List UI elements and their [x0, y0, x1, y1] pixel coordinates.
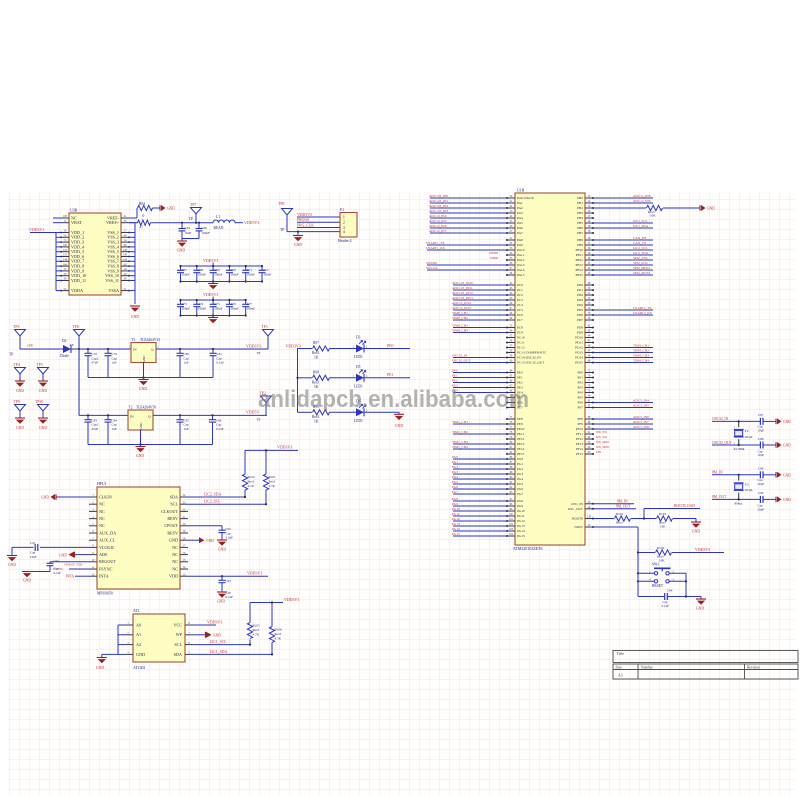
svg-text:GND: GND [783, 473, 791, 477]
svg-text:VBAT: VBAT [71, 220, 82, 225]
wire to U1B PC7 [453, 319, 507, 321]
U1B pin PG3 [507, 473, 515, 475]
svg-text:LED: LED [596, 451, 601, 454]
svg-text:ADC123_IN3: ADC123_IN3 [429, 209, 448, 213]
svg-text:STM32F_VDD: STM32F_VDD [64, 562, 82, 566]
U1B pin PE9 [507, 423, 515, 425]
svg-text:PF14: PF14 [576, 447, 583, 451]
svg-text:PC14-OSC32_IN: PC14-OSC32_IN [517, 356, 541, 360]
svg-text:PE0: PE0 [517, 371, 523, 375]
wire bead to VDD3V3 [235, 222, 243, 224]
wire T2 output rail [153, 414, 267, 416]
wire from U1B PD14 [593, 357, 653, 359]
svg-text:PA12: PA12 [517, 258, 525, 262]
capacitor C70 100nF [228, 266, 230, 270]
svg-text:143: 143 [123, 259, 128, 262]
svg-text:PF15: PF15 [576, 452, 583, 456]
svg-text:PC7: PC7 [517, 318, 523, 322]
svg-text:Res3: Res3 [248, 480, 255, 484]
wire C88 to ground [763, 444, 776, 446]
U1B pin PB8 [585, 239, 593, 241]
wire to U1B PE2 [453, 382, 507, 384]
ground right of C94 [700, 597, 702, 600]
svg-text:8M_OUT: 8M_OUT [616, 504, 631, 508]
svg-text:VDD3V3: VDD3V3 [284, 597, 299, 602]
svg-text:GND: GND [136, 652, 145, 657]
svg-text:SWCLK: SWCLK [426, 266, 438, 270]
ground below C91 wire [7, 555, 17, 557]
svg-text:OSC_OUT: OSC_OUT [568, 507, 583, 511]
HPU1 pin NC / CPOUT [89, 525, 97, 527]
wire to U1B PA9 [427, 244, 507, 246]
wire T1 output rail [156, 348, 268, 350]
svg-text:PRG_CLK: PRG_CLK [297, 223, 314, 227]
wire to U1B PG8 [453, 500, 507, 502]
svg-text:PG5: PG5 [517, 482, 523, 486]
svg-text:8M_OUT: 8M_OUT [712, 495, 727, 499]
svg-text:REGOUT: REGOUT [99, 559, 116, 564]
svg-text:PG2: PG2 [517, 467, 523, 471]
U3B pin VBAT/VREF+ [61, 222, 69, 224]
svg-text:PG5: PG5 [452, 480, 458, 484]
svg-text:0.1uF: 0.1uF [662, 604, 670, 608]
svg-text:FSYNC: FSYNC [99, 566, 113, 571]
wire from U1B PB5 [593, 222, 653, 224]
svg-text:PB3: PB3 [577, 211, 583, 215]
U1B pin PD4 [585, 304, 593, 306]
wire OSC32_IN net [712, 420, 760, 422]
U1B pin PE2 [507, 382, 515, 384]
svg-text:AUX_CL: AUX_CL [99, 538, 116, 543]
ground below C93 [217, 591, 227, 593]
U1B pin PA0-WKUP [507, 197, 515, 199]
svg-text:PE9: PE9 [517, 422, 523, 426]
U1B pin PG6 [507, 488, 515, 490]
wire from U1B PB15 [593, 274, 653, 276]
svg-text:PC2: PC2 [517, 293, 523, 297]
svg-text:TIM1_CH2: TIM1_CH2 [452, 430, 468, 434]
wire top bus cap bank row 2 [181, 299, 246, 301]
capacitor C71 100nF [245, 266, 247, 270]
svg-text:Res3: Res3 [616, 521, 623, 525]
svg-text:PB15: PB15 [575, 273, 583, 277]
svg-text:Res3: Res3 [312, 351, 319, 355]
svg-text:PG7: PG7 [517, 492, 523, 496]
svg-text:VCC: VCC [173, 622, 182, 627]
svg-text:OSC_IN: OSC_IN [571, 502, 583, 506]
svg-text:GND: GND [139, 387, 148, 391]
wire C91 to ground [12, 546, 34, 548]
wire to U1B PA13 [427, 264, 507, 266]
svg-text:PD2: PD2 [577, 293, 583, 297]
U1B pin PE6 [507, 402, 515, 404]
svg-text:10K: 10K [659, 559, 665, 563]
svg-text:SW1: SW1 [652, 563, 659, 567]
svg-text:GND: GND [213, 634, 221, 638]
svg-text:I2C2_SCL: I2C2_SCL [633, 246, 648, 250]
svg-text:PD1: PD1 [577, 288, 583, 292]
svg-text:PF3: PF3 [578, 386, 584, 390]
U1B pin PA7 [507, 232, 515, 234]
wire from U1B PB1 [593, 202, 653, 204]
svg-text:PA2: PA2 [517, 206, 523, 210]
svg-text:I2C1_SCL: I2C1_SCL [633, 219, 648, 223]
LED D5 [356, 374, 364, 382]
wire VREF- to resistor R04 [129, 217, 137, 219]
wire from U1B PB6 [593, 227, 653, 229]
wire pullup tops to VDD3V3 [245, 449, 298, 451]
svg-text:ADC12_IN15: ADC12_IN15 [452, 306, 471, 310]
svg-text:C89: C89 [758, 466, 764, 470]
U1B pin PF8 [585, 418, 593, 420]
U1B pin PA8 [507, 239, 515, 241]
wire header pin2 [297, 221, 340, 223]
ground below T2 [140, 445, 142, 447]
svg-text:SPI2_SCK: SPI2_SCK [633, 261, 648, 265]
svg-text:T2: T2 [129, 406, 133, 410]
U1B pin PE11 [507, 433, 515, 435]
wire to U1B PG11 [453, 515, 507, 517]
svg-text:GND: GND [41, 496, 49, 500]
U1B pin PD6 [585, 314, 593, 316]
svg-text:Title: Title [617, 651, 625, 656]
U1B pin PG11 [507, 515, 515, 517]
svg-text:ADC3_IN8: ADC3_IN8 [633, 425, 649, 429]
U1B pin PE0 [507, 372, 515, 374]
svg-text:121: 121 [63, 249, 68, 252]
svg-text:USART1_TX: USART1_TX [426, 241, 445, 245]
svg-text:131: 131 [63, 254, 68, 257]
capacitor C88 10pF [759, 442, 761, 449]
U1B pin PG4 [507, 478, 515, 480]
wire header pin4 from TP8 [287, 231, 340, 233]
capacitor C86 0.1uF [212, 415, 214, 419]
U1B pin PA5 [507, 222, 515, 224]
wire FSYNC [69, 568, 89, 570]
capacitor C66 100nF [198, 223, 200, 229]
svg-text:USART2_RX: USART2_RX [633, 311, 652, 315]
svg-text:10K: 10K [650, 214, 656, 218]
svg-text:PG10: PG10 [452, 507, 460, 511]
svg-text:PD12: PD12 [575, 346, 583, 350]
svg-text:R101: R101 [269, 475, 276, 479]
svg-text:SCL: SCL [174, 642, 182, 647]
regulator T2 TLE4264V50 [128, 410, 153, 430]
svg-text:SWDIO: SWDIO [426, 261, 438, 265]
svg-text:PB8: PB8 [577, 238, 583, 242]
svg-text:PG1: PG1 [452, 460, 458, 464]
svg-text:AD0: AD0 [99, 552, 107, 557]
svg-text:10K: 10K [660, 525, 666, 529]
wire SW1 right side down [685, 573, 687, 596]
U1B pin PE10 [507, 428, 515, 430]
svg-text:PA10: PA10 [517, 248, 525, 252]
wires to SW1 contacts [638, 572, 654, 574]
svg-text:PB4: PB4 [577, 216, 583, 220]
svg-text:4.7K: 4.7K [248, 484, 255, 488]
svg-text:TP1: TP1 [262, 325, 268, 329]
svg-text:C68: C68 [198, 268, 204, 272]
svg-text:PF13: PF13 [576, 442, 583, 446]
U1B pin PF15 [585, 453, 593, 455]
resistor R04 [138, 205, 153, 210]
wire pullups to VDD3V3 at AT1 [250, 602, 283, 604]
U1B pin OSC_IN [585, 503, 593, 505]
wire header pin1 [297, 216, 340, 218]
wire R97 to D3 [330, 348, 357, 350]
U1B pin PB12 [585, 259, 593, 261]
HPU1 pin NC / RESV [89, 518, 97, 520]
svg-text:PA4: PA4 [517, 216, 523, 220]
svg-text:I2C2_SDA: I2C2_SDA [633, 251, 649, 255]
U1B pin PC9 [507, 332, 515, 334]
svg-text:R103: R103 [659, 512, 666, 516]
capacitor C69 100nF [212, 266, 214, 270]
U1B pin PE4 [507, 392, 515, 394]
svg-text:A2: A2 [136, 642, 141, 647]
svg-text:Y2: Y2 [745, 429, 749, 433]
svg-text:C88: C88 [758, 437, 764, 441]
wire R104 to VDD3V3 [672, 552, 724, 554]
svg-text:TP: TP [280, 228, 284, 232]
svg-text:PA14: PA14 [517, 268, 525, 272]
svg-text:CPOUT: CPOUT [164, 523, 178, 528]
resistor R102 [615, 516, 631, 521]
svg-text:C74: C74 [198, 302, 204, 306]
U1B pin PC3 [507, 299, 515, 301]
svg-text:PC10: PC10 [517, 336, 525, 340]
IC U1B STM32F103ZET6 [515, 193, 585, 545]
capacitor C74 100nF [196, 300, 198, 304]
U1B pin PF5 [585, 397, 593, 399]
svg-text:PC0: PC0 [517, 283, 523, 287]
svg-text:TP5: TP5 [37, 363, 43, 367]
U1B pin PF14 [585, 448, 593, 450]
svg-text:PD9: PD9 [577, 331, 583, 335]
wire D3 to net label [364, 348, 410, 350]
wire +5V to diode [20, 348, 63, 350]
svg-text:PG10: PG10 [517, 509, 525, 513]
svg-text:A1: A1 [136, 632, 141, 637]
wire to U1B PG10 [453, 510, 507, 512]
U3B pin VDD_1/VSS_1 [61, 232, 69, 234]
svg-text:PG3: PG3 [452, 470, 458, 474]
wire from U1B PB10 [593, 249, 653, 251]
svg-text:R102: R102 [616, 512, 623, 516]
svg-text:GND: GND [96, 666, 105, 670]
U1B pin PG9 [507, 505, 515, 507]
U1B pin PG15 [507, 535, 515, 537]
svg-text:PF6: PF6 [578, 401, 584, 405]
wire from U1B PB14 [593, 269, 653, 271]
wire to U1B PC0 [453, 284, 507, 286]
svg-text:USART2_TX: USART2_TX [633, 306, 652, 310]
svg-text:Revision: Revision [747, 665, 760, 669]
svg-text:4.7K: 4.7K [275, 637, 282, 641]
capacitor C73 100nF [180, 300, 182, 304]
svg-text:SPI1_SCK: SPI1_SCK [596, 436, 608, 439]
svg-text:PE2: PE2 [452, 378, 458, 382]
U1B pin PF2 [585, 382, 593, 384]
svg-text:USBDM: USBDM [489, 252, 499, 255]
resistor R96 10K on PB2 [593, 207, 646, 209]
U1B pin PD5 [585, 309, 593, 311]
ground below cap bank row 1 [212, 282, 214, 284]
U1B pin PB7 [585, 232, 593, 234]
svg-text:TP: TP [257, 417, 261, 421]
svg-text:PD14: PD14 [575, 356, 583, 360]
U1B pin PC5 [507, 309, 515, 311]
svg-text:PROG0: PROG0 [297, 218, 309, 222]
svg-text:GND: GND [23, 579, 31, 583]
wire LED supply bus [297, 349, 299, 413]
ground below cap bank row 2 [212, 316, 214, 318]
svg-text:NC: NC [172, 559, 178, 564]
U1B pin PC2 [507, 294, 515, 296]
capacitor C72 100nF [261, 266, 263, 270]
U1B pin PG12 [507, 520, 515, 522]
svg-text:C70: C70 [231, 268, 237, 272]
svg-text:PB5: PB5 [577, 221, 583, 225]
ground below C92 [22, 571, 32, 573]
wire to U1B PC8 [453, 327, 507, 329]
svg-text:2.2nF: 2.2nF [226, 536, 234, 540]
svg-text:PG11: PG11 [452, 512, 460, 516]
svg-text:VDD: VDD [169, 574, 178, 579]
wire to U1B PA6 [430, 227, 507, 229]
wire from U1B PB0 [593, 197, 653, 199]
ground below header pin4 wire [297, 232, 299, 236]
svg-text:GND: GND [177, 249, 186, 253]
wire to U1B PA0-WKUP [430, 197, 507, 199]
svg-text:100: 100 [63, 215, 68, 218]
svg-text:R98: R98 [313, 370, 319, 374]
svg-text:NC: NC [172, 545, 178, 550]
svg-text:TIM4_CH1: TIM4_CH1 [633, 343, 649, 347]
U1B pin PB14 [585, 269, 593, 271]
svg-text:R100: R100 [248, 475, 255, 479]
svg-text:D2: D2 [62, 339, 67, 343]
wire AD0 to ground [75, 554, 89, 556]
svg-text:PG4: PG4 [517, 477, 523, 481]
wire to U1B PC14-OSC32_IN [453, 357, 507, 359]
svg-text:A0: A0 [136, 622, 141, 627]
wire CPOUT to cap [188, 525, 222, 527]
capacitor C80 1uF [179, 349, 181, 353]
svg-text:PF10: PF10 [576, 427, 583, 431]
svg-text:PB14: PB14 [575, 268, 583, 272]
svg-text:100nF: 100nF [263, 273, 271, 277]
svg-text:VDD3V3: VDD3V3 [244, 220, 259, 225]
svg-text:PE13: PE13 [517, 442, 525, 446]
svg-text:VDD3V3: VDD3V3 [203, 258, 218, 263]
svg-text:R104: R104 [657, 546, 664, 550]
svg-text:PF5: PF5 [578, 396, 584, 400]
wire header pin3 [297, 227, 340, 229]
svg-text:PG8: PG8 [517, 499, 523, 503]
svg-text:C87: C87 [758, 413, 764, 417]
svg-text:PC4: PC4 [517, 303, 523, 307]
svg-text:VLOGIC: VLOGIC [99, 545, 115, 550]
wire VLOGIC with series cap C91 [40, 546, 89, 548]
svg-text:8M_IN: 8M_IN [712, 470, 723, 474]
svg-text:TP3: TP3 [13, 325, 19, 329]
capacitor C84 1uF [107, 415, 109, 419]
U1B pin PC14-OSC32_IN [507, 357, 515, 359]
U1B pin PE1 [507, 377, 515, 379]
test point TP2 [261, 396, 272, 403]
svg-text:VDD3V3: VDD3V3 [297, 213, 312, 217]
AT1 pin A0 / VCC [125, 624, 133, 626]
wire R96 to ground [663, 207, 700, 209]
svg-text:SPI2_NSS: SPI2_NSS [633, 256, 648, 260]
svg-text:47: 47 [140, 225, 144, 229]
svg-text:PA6: PA6 [517, 226, 523, 230]
svg-text:C67: C67 [182, 268, 188, 272]
U1B pin PD10 [585, 337, 593, 339]
AT1 pin A2 / SCL [125, 644, 133, 646]
U1B pin PF9 [585, 423, 593, 425]
svg-text:PG14: PG14 [452, 527, 460, 531]
svg-text:ADC123_IN13: ADC123_IN13 [452, 296, 473, 300]
U1B pin PA1 [507, 202, 515, 204]
svg-text:ADC3_IN7: ADC3_IN7 [633, 420, 649, 424]
ground left of AD0 [69, 552, 75, 558]
wire from U1B PF8 [593, 418, 653, 420]
wire 8M_IN net [712, 474, 760, 476]
test point TP9 with ground [15, 405, 26, 412]
wire from U1B PF10 [593, 428, 653, 430]
svg-text:100nF: 100nF [202, 231, 211, 235]
wire to U1B PC9 [453, 332, 507, 334]
svg-text:GND: GND [692, 530, 701, 534]
svg-text:NC: NC [172, 566, 178, 571]
U1B pin PC7 [507, 319, 515, 321]
U1B pin PG14 [507, 530, 515, 532]
svg-text:PB12: PB12 [575, 258, 583, 262]
svg-text:TIM8_CH4: TIM8_CH4 [452, 328, 468, 332]
svg-text:PD11: PD11 [575, 341, 583, 345]
U3B pin VDD_3/VSS_3 [61, 241, 69, 243]
svg-text:NC: NC [99, 516, 105, 521]
U1B pin PC6 [507, 314, 515, 316]
U1B pin PA14 [507, 269, 515, 271]
svg-text:PE10: PE10 [517, 427, 525, 431]
wire to U1B PA4 [430, 217, 507, 219]
svg-text:0.1uF: 0.1uF [217, 361, 225, 365]
wire to U1B PG15 [453, 535, 507, 537]
HPU1 pin REGOUT / NC [89, 561, 97, 563]
svg-text:PG6: PG6 [517, 487, 523, 491]
U1B pin PA6 [507, 227, 515, 229]
U1B pin PE7 [507, 407, 515, 409]
ground below T1 [143, 378, 145, 380]
svg-text:PA8: PA8 [517, 238, 523, 242]
svg-text:C94: C94 [667, 589, 673, 593]
svg-text:GND: GND [39, 389, 47, 393]
svg-text:PD3: PD3 [577, 298, 583, 302]
wire to U1B PE11 [453, 433, 507, 435]
U3B pin VDD_2/VSS_2 [61, 236, 69, 238]
svg-text:VDD3V3: VDD3V3 [29, 227, 44, 232]
wire OSC_IN to 8M_IN [593, 503, 634, 505]
resistor R101 4.7K pullup [265, 490, 267, 504]
U1B pin PA3 [507, 212, 515, 214]
wire from U1B PD5 [593, 309, 653, 311]
svg-text:VREF+: VREF+ [106, 220, 120, 225]
svg-text:PA13: PA13 [517, 263, 525, 267]
svg-text:PA7: PA7 [517, 231, 523, 235]
